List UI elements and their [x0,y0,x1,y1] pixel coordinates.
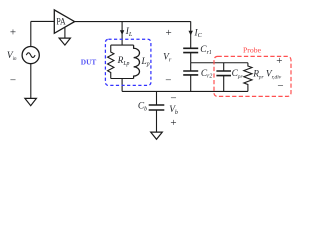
wire Cb stubs [156,91,158,132]
wire Vin top [30,21,32,46]
svg-text:−: − [170,92,176,104]
voltage source Vin circle [22,47,39,64]
DUT dashed box [105,39,150,85]
wire top rail [31,20,191,22]
wire IC branch [190,21,192,48]
svg-text:+: + [10,27,16,39]
svg-text:Vr,div: Vr,div [266,69,282,80]
svg-text:Lp: Lp [141,57,150,68]
svg-text:Cpr: Cpr [232,69,244,80]
svg-text:−: − [165,75,171,87]
current arrow IC [189,31,193,36]
wire Cr2 stubs [190,63,192,92]
inductor Lp [134,45,140,78]
svg-text:−: − [10,74,16,86]
wire DUT bottom stub [121,79,123,92]
svg-text:+: + [165,27,171,39]
wire Cpr stubs [223,63,225,92]
svg-text:RLp: RLp [117,56,130,67]
svg-text:Cb: Cb [138,102,147,113]
Probe dashed box [214,56,291,96]
ground below Vin (arrow style) [25,98,37,105]
wire node rail to probe [191,62,248,64]
capacitor Cb [149,105,165,110]
svg-text:Rpr: Rpr [252,70,264,81]
wire Cr1 to node [190,53,192,63]
capacitor Cr2 [183,71,198,75]
capacitor Cpr [216,71,231,76]
svg-text:Vr: Vr [163,53,172,64]
svg-text:DUT: DUT [81,57,97,66]
wire DUT top bar [111,44,134,46]
sine symbol [26,53,35,58]
svg-text:Probe: Probe [243,46,262,55]
svg-text:Vin: Vin [7,51,17,62]
resistor Rpr [244,63,252,92]
svg-text:Cr2: Cr2 [201,69,213,80]
svg-text:PA: PA [56,17,65,28]
ground below Cb (arrow style) [151,132,163,139]
svg-text:+: + [276,55,282,67]
svg-text:IL: IL [125,27,133,38]
wire Vin bottom [30,64,32,99]
svg-text:IC: IC [194,28,203,39]
wire bottom rail [122,90,248,92]
svg-text:Cr1: Cr1 [200,45,212,56]
svg-text:−: − [277,80,283,92]
wire DUT bottom bar [111,78,134,80]
current arrow IL [120,30,124,35]
wire IL branch [121,21,123,45]
ground below PA (arrow style) [59,38,70,45]
capacitor Cr1 [183,48,198,52]
svg-text:Vb: Vb [169,105,178,116]
svg-text:+: + [170,117,176,129]
wire PA ground stem [64,27,66,38]
resistor RLp [108,45,114,78]
op-amp PA triangle [54,10,74,33]
